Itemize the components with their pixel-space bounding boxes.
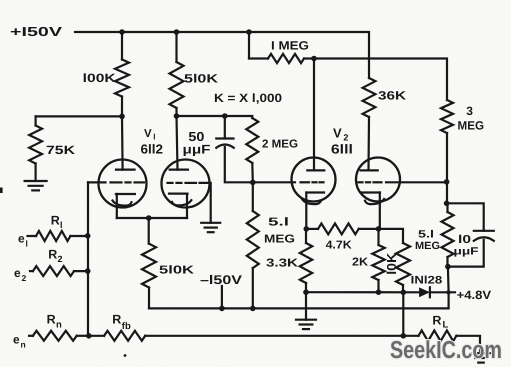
svg-text:l: l [26,239,28,249]
svg-text:MEG: MEG [458,119,485,133]
svg-text:5.l: 5.l [268,217,289,229]
svg-text:5l0K: 5l0K [159,265,195,277]
svg-text:36K: 36K [378,89,406,103]
svg-text:75K: 75K [46,143,75,157]
svg-text:2: 2 [22,273,27,283]
svg-text:5.l: 5.l [418,229,434,241]
svg-text:μμF: μμF [183,143,211,157]
svg-text:SeekIC.com: SeekIC.com [390,337,502,364]
svg-text:l: l [60,220,63,230]
svg-text:V: V [333,126,342,141]
svg-text:–l50V: –l50V [200,273,243,287]
svg-text:V: V [144,128,152,140]
svg-text:R: R [432,314,441,328]
svg-text:n: n [56,320,62,331]
svg-text:l00K: l00K [83,71,116,85]
svg-text:2: 2 [58,254,63,264]
svg-text:3: 3 [466,104,473,118]
svg-text:R: R [51,214,60,228]
svg-text:6lll: 6lll [331,142,353,157]
svg-text:2K: 2K [352,257,369,269]
svg-text:MEG: MEG [264,234,295,246]
svg-text:INl28: INl28 [411,275,443,287]
svg-text:R: R [112,313,121,327]
svg-text:K = X l,000: K = X l,000 [214,91,282,105]
svg-text:R: R [48,248,57,262]
svg-text:l0: l0 [458,234,471,246]
svg-text:+I50V: +I50V [10,24,62,39]
svg-text:5l0K: 5l0K [184,72,218,86]
svg-text:+4.8V: +4.8V [457,288,492,302]
svg-text:4.7K: 4.7K [326,240,353,252]
svg-text:μμF: μμF [454,246,480,258]
svg-text:R: R [47,313,56,327]
svg-text:e: e [14,266,21,280]
svg-text:3.3K: 3.3K [266,258,299,270]
svg-text:2 MEG: 2 MEG [262,139,298,151]
svg-text:fb: fb [122,321,131,332]
svg-text:L: L [443,320,449,331]
svg-text:6ll2: 6ll2 [141,142,164,157]
svg-text:n: n [21,340,26,350]
svg-text:l0K: l0K [384,252,399,275]
svg-text:l: l [153,133,155,142]
svg-text:e: e [18,232,25,246]
svg-text:e: e [13,333,20,347]
svg-text:MEG: MEG [415,240,440,252]
svg-text:I MEG: I MEG [271,39,309,53]
